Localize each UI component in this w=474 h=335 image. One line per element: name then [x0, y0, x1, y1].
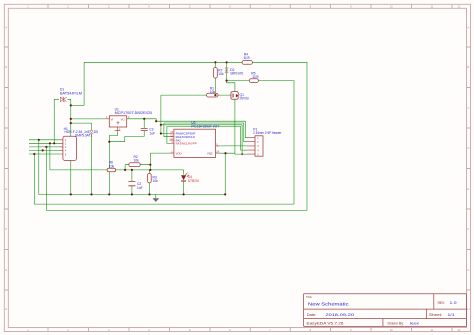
- svg-text:H: H: [467, 307, 469, 311]
- svg-text:H: H: [5, 307, 7, 311]
- svg-text:10k: 10k: [218, 72, 224, 76]
- svg-text:D: D: [467, 146, 469, 150]
- svg-text:E: E: [5, 187, 7, 191]
- svg-text:RA3/MCLR/VPP: RA3/MCLR/VPP: [176, 142, 197, 146]
- svg-text:C: C: [5, 106, 7, 110]
- svg-text:D5: D5: [94, 130, 98, 134]
- svg-text:MCP1700T-5002E/CB: MCP1700T-5002E/CB: [115, 111, 153, 115]
- svg-text:TITLE:: TITLE:: [306, 295, 312, 299]
- svg-text:Drawn By:: Drawn By:: [388, 321, 405, 325]
- svg-text:leox: leox: [410, 321, 420, 325]
- svg-text:1uF: 1uF: [137, 186, 143, 190]
- svg-text:2N7002: 2N7002: [240, 96, 249, 100]
- svg-text:SMF5.0AT1: SMF5.0AT1: [75, 134, 93, 138]
- svg-text:A: A: [468, 26, 470, 30]
- svg-text:REV:: REV:: [438, 301, 445, 305]
- svg-text:B: B: [468, 65, 470, 69]
- svg-text:Sheet:: Sheet:: [429, 313, 442, 317]
- svg-text:Date:: Date:: [307, 313, 317, 317]
- svg-text:PIC16F1503T I/OT: PIC16F1503T I/OT: [191, 125, 219, 129]
- svg-text:10k: 10k: [134, 159, 140, 163]
- svg-text:1.0: 1.0: [450, 301, 457, 305]
- svg-text:E: E: [468, 187, 470, 191]
- svg-text:New Schematic: New Schematic: [308, 301, 349, 306]
- svg-text:G: G: [5, 268, 7, 272]
- svg-text:2.54mm 1*5P Header: 2.54mm 1*5P Header: [253, 131, 282, 135]
- svg-text:2018-09-20: 2018-09-20: [326, 313, 355, 317]
- svg-text:VDD: VDD: [176, 151, 183, 155]
- svg-text:C: C: [467, 106, 469, 110]
- svg-text:A: A: [5, 26, 7, 30]
- svg-text:BZT55C5V1: BZT55C5V1: [188, 179, 199, 183]
- svg-text:VSS: VSS: [207, 151, 213, 155]
- svg-text:SMF5.0AT1: SMF5.0AT1: [230, 71, 244, 75]
- svg-text:D: D: [5, 146, 7, 150]
- svg-text:10k: 10k: [109, 164, 115, 168]
- svg-text:510R: 510R: [244, 56, 250, 60]
- svg-text:510R: 510R: [253, 75, 259, 79]
- svg-text:10k: 10k: [153, 179, 159, 183]
- svg-text:G: G: [467, 268, 469, 272]
- svg-text:10k: 10k: [210, 90, 216, 94]
- svg-text:BAT54JFILM: BAT54JFILM: [60, 91, 82, 95]
- svg-text:VI: VI: [111, 117, 114, 121]
- svg-text:1uF: 1uF: [149, 131, 155, 135]
- svg-text:1/1: 1/1: [448, 313, 455, 317]
- svg-text:EasyEDA V5.7.26: EasyEDA V5.7.26: [307, 322, 344, 326]
- svg-text:B: B: [5, 65, 7, 69]
